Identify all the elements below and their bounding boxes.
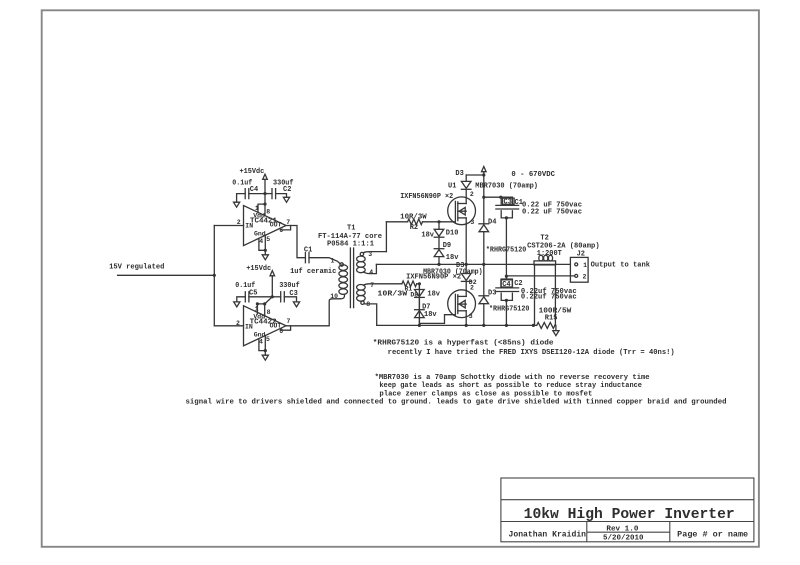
wire C5 to rail	[249, 296, 272, 298]
svg-text:7: 7	[287, 318, 291, 325]
wire R2 to gate Q1	[423, 221, 456, 223]
svg-text:recently I have tried the FRED: recently I have tried the FRED IXYS DSEI…	[388, 349, 675, 357]
wire V+ to cap C3/C1	[484, 196, 501, 198]
svg-text:IN: IN	[245, 324, 253, 331]
svg-text:3: 3	[470, 219, 474, 226]
svg-text:C2: C2	[514, 280, 522, 288]
wire pin 8 stub TC4422	[264, 304, 266, 316]
svg-text:8: 8	[267, 309, 271, 316]
svg-text:2: 2	[470, 191, 474, 198]
wire T1 pin 4 to mid rail	[363, 264, 376, 273]
svg-text:IXFN56N90P ×2: IXFN56N90P ×2	[400, 193, 453, 201]
wire C1 to T1 pin 1	[309, 258, 340, 264]
wire TC4421 pins 4,5 to ground	[259, 235, 265, 255]
wire D4 to mid rail	[483, 232, 485, 265]
wire C3 to ground	[284, 297, 296, 302]
wire R15 to ground	[555, 325, 556, 330]
power arrow +15Vdc TC4422	[270, 271, 275, 276]
svg-text:2: 2	[470, 284, 474, 291]
wire T1 pin 10 from TC4422	[291, 299, 340, 326]
transistor Q2 IXFN56N90P	[448, 290, 476, 318]
wire pin 1 jog TC4421	[258, 204, 265, 213]
svg-text:5: 5	[266, 336, 270, 343]
wire D3 to top rail	[465, 175, 467, 181]
wire C4 to rail	[249, 193, 265, 195]
wire to TC4421 IN	[214, 225, 243, 227]
op-amp driver TC4422	[244, 306, 287, 346]
wire TC4421 pins 6-7 loop	[281, 226, 291, 230]
svg-text:5: 5	[266, 236, 270, 243]
wire mid rail switch node	[376, 263, 570, 265]
T1 primary winding	[340, 263, 343, 266]
ground TC4422 pins 4,5	[262, 355, 268, 360]
svg-text:MBR7030 (70amp): MBR7030 (70amp)	[475, 183, 538, 191]
svg-text:18v: 18v	[421, 232, 434, 240]
svg-text:0.22uf 750vac: 0.22uf 750vac	[521, 294, 577, 302]
svg-text:Gnd: Gnd	[254, 230, 266, 237]
wire C5 to ground	[237, 297, 246, 302]
svg-text:2: 2	[237, 219, 241, 226]
svg-text:2: 2	[236, 320, 240, 327]
wire TC4421 OUT to C1	[291, 226, 306, 258]
wire cap midpoint	[505, 218, 507, 276]
svg-text:0.1uf: 0.1uf	[235, 282, 255, 290]
wire rail to C2	[265, 193, 272, 195]
svg-text:D3: D3	[488, 290, 496, 298]
svg-text:18v: 18v	[427, 291, 440, 299]
svg-text:IXFN56N90P ×2: IXFN56N90P ×2	[406, 274, 461, 282]
svg-text:+15Vdc: +15Vdc	[246, 265, 271, 273]
wire Q2 drain	[465, 282, 467, 296]
wire Q1 source to mid rail	[465, 218, 467, 265]
svg-text:330uf: 330uf	[279, 282, 300, 290]
wire T1 pin 3	[363, 252, 386, 253]
svg-text:C3: C3	[504, 199, 512, 207]
wire TC4422 pins 6-7 loop	[281, 326, 291, 330]
svg-text:0.22 uF 750vac: 0.22 uF 750vac	[522, 209, 582, 217]
svg-text:C4: C4	[502, 281, 510, 289]
svg-text:5/20/2010: 5/20/2010	[603, 535, 644, 543]
svg-text:2: 2	[583, 273, 587, 280]
svg-text:1: 1	[331, 257, 335, 264]
power arrow V+	[482, 167, 487, 172]
wire V+ rail	[483, 172, 485, 224]
T1 secondary top winding	[360, 252, 363, 255]
svg-text:keep gate leads as short as po: keep gate leads as short as possible to …	[379, 382, 642, 390]
wire C4/C2 to bottom rail	[505, 300, 507, 325]
svg-text:+15Vdc: +15Vdc	[240, 168, 265, 176]
svg-text:P0584 1:1:1: P0584 1:1:1	[327, 241, 374, 249]
capacitor C4/C2 0.22uf 750vac	[501, 276, 512, 288]
wire gate jog Q2	[419, 284, 455, 324]
wire TC4422 pins 4,5 to ground	[259, 336, 265, 356]
svg-text:1: 1	[583, 262, 587, 269]
wire C4 to ground	[237, 194, 246, 203]
svg-text:*RHRG75120: *RHRG75120	[489, 306, 529, 314]
wire D3 to bottom rail	[483, 304, 485, 326]
svg-text:4: 4	[259, 338, 263, 345]
svg-text:T2: T2	[540, 235, 548, 243]
transformer T1 core	[350, 248, 353, 308]
svg-text:*RHRG75120 is a hyperfast (<85: *RHRG75120 is a hyperfast (<85ns) diode	[373, 339, 554, 347]
svg-text:signal wire to drivers shielde: signal wire to drivers shielded and conn…	[186, 399, 727, 407]
svg-text:18v: 18v	[446, 254, 459, 262]
wire pin3 riser	[385, 222, 387, 252]
ground C5	[234, 302, 240, 307]
wire T1 pin 7 to R1	[363, 284, 402, 285]
wire rail to C3	[272, 296, 280, 298]
wire input bus vertical	[213, 226, 215, 326]
wire Q1 drain	[465, 190, 467, 203]
svg-text:4: 4	[259, 238, 263, 245]
wire pins 1,8 jog TC4422	[257, 297, 272, 304]
T1 secondary bottom winding	[357, 285, 366, 291]
power arrow +15Vdc TC4421	[263, 174, 268, 179]
svg-text:0 - 670VDC: 0 - 670VDC	[511, 171, 555, 179]
wire D3 to V+ rail	[466, 174, 484, 176]
wire D9 to mid rail	[438, 257, 440, 265]
title block	[501, 478, 754, 542]
svg-text:D10: D10	[446, 229, 459, 237]
svg-text:D4: D4	[488, 219, 496, 227]
svg-text:IN: IN	[245, 223, 253, 230]
ground C4	[234, 202, 240, 207]
ground TC4421 pins 4,5	[262, 255, 268, 260]
wire to TC4422 IN	[214, 325, 243, 327]
ground output	[553, 331, 559, 336]
svg-text:18v: 18v	[424, 311, 437, 319]
svg-text:*MBR7030 is a 70amp Schottky d: *MBR7030 is a 70amp Schottky diode with …	[375, 374, 650, 382]
wire pin 1 stub TC4422	[256, 304, 258, 314]
transistor Q1 IXFN56N90P	[448, 197, 476, 225]
svg-text:1uf ceramic: 1uf ceramic	[290, 268, 336, 276]
op-amp driver TC4421	[244, 206, 287, 246]
wire R1 to gate node	[417, 283, 420, 285]
svg-text:Page # or name: Page # or name	[677, 531, 748, 540]
wire pin 8 stub TC4421	[264, 204, 266, 215]
wire 15V input	[118, 274, 215, 276]
svg-text:place zener clamps as close as: place zener clamps as close as possible …	[379, 390, 592, 398]
svg-text:U1: U1	[448, 183, 456, 191]
wire to R2	[386, 221, 407, 223]
svg-text:8: 8	[266, 209, 270, 216]
svg-text:R15: R15	[545, 314, 558, 322]
svg-text:Rev 1.0: Rev 1.0	[606, 525, 638, 533]
wire +15V rail TC4422	[271, 276, 273, 297]
wire D7 to bottom rail	[418, 318, 420, 326]
wire T1 pin 8 to bottom rail	[365, 304, 377, 326]
svg-text:6: 6	[279, 328, 283, 335]
wire C2 to ground	[276, 194, 287, 198]
svg-text:4: 4	[369, 269, 373, 276]
wire cap midpoint to J2 pin 2	[506, 275, 574, 277]
svg-text:D3: D3	[455, 170, 463, 178]
ground C2	[283, 197, 289, 202]
ground C3	[293, 302, 299, 307]
svg-text:Jonathan Kraidin: Jonathan Kraidin	[509, 531, 587, 540]
wire bottom rail (ground return)	[377, 324, 537, 326]
wire T2 secondary leads	[535, 265, 556, 326]
svg-text:10kw High Power Inverter: 10kw High Power Inverter	[524, 507, 735, 523]
svg-text:3: 3	[469, 313, 473, 320]
wire Q2 source to bottom rail	[465, 311, 467, 326]
svg-text:Output to tank: Output to tank	[591, 261, 650, 269]
wire +15V rail TC4421	[264, 179, 266, 204]
svg-text:15V regulated: 15V regulated	[109, 263, 164, 271]
svg-text:T1: T1	[347, 225, 355, 233]
